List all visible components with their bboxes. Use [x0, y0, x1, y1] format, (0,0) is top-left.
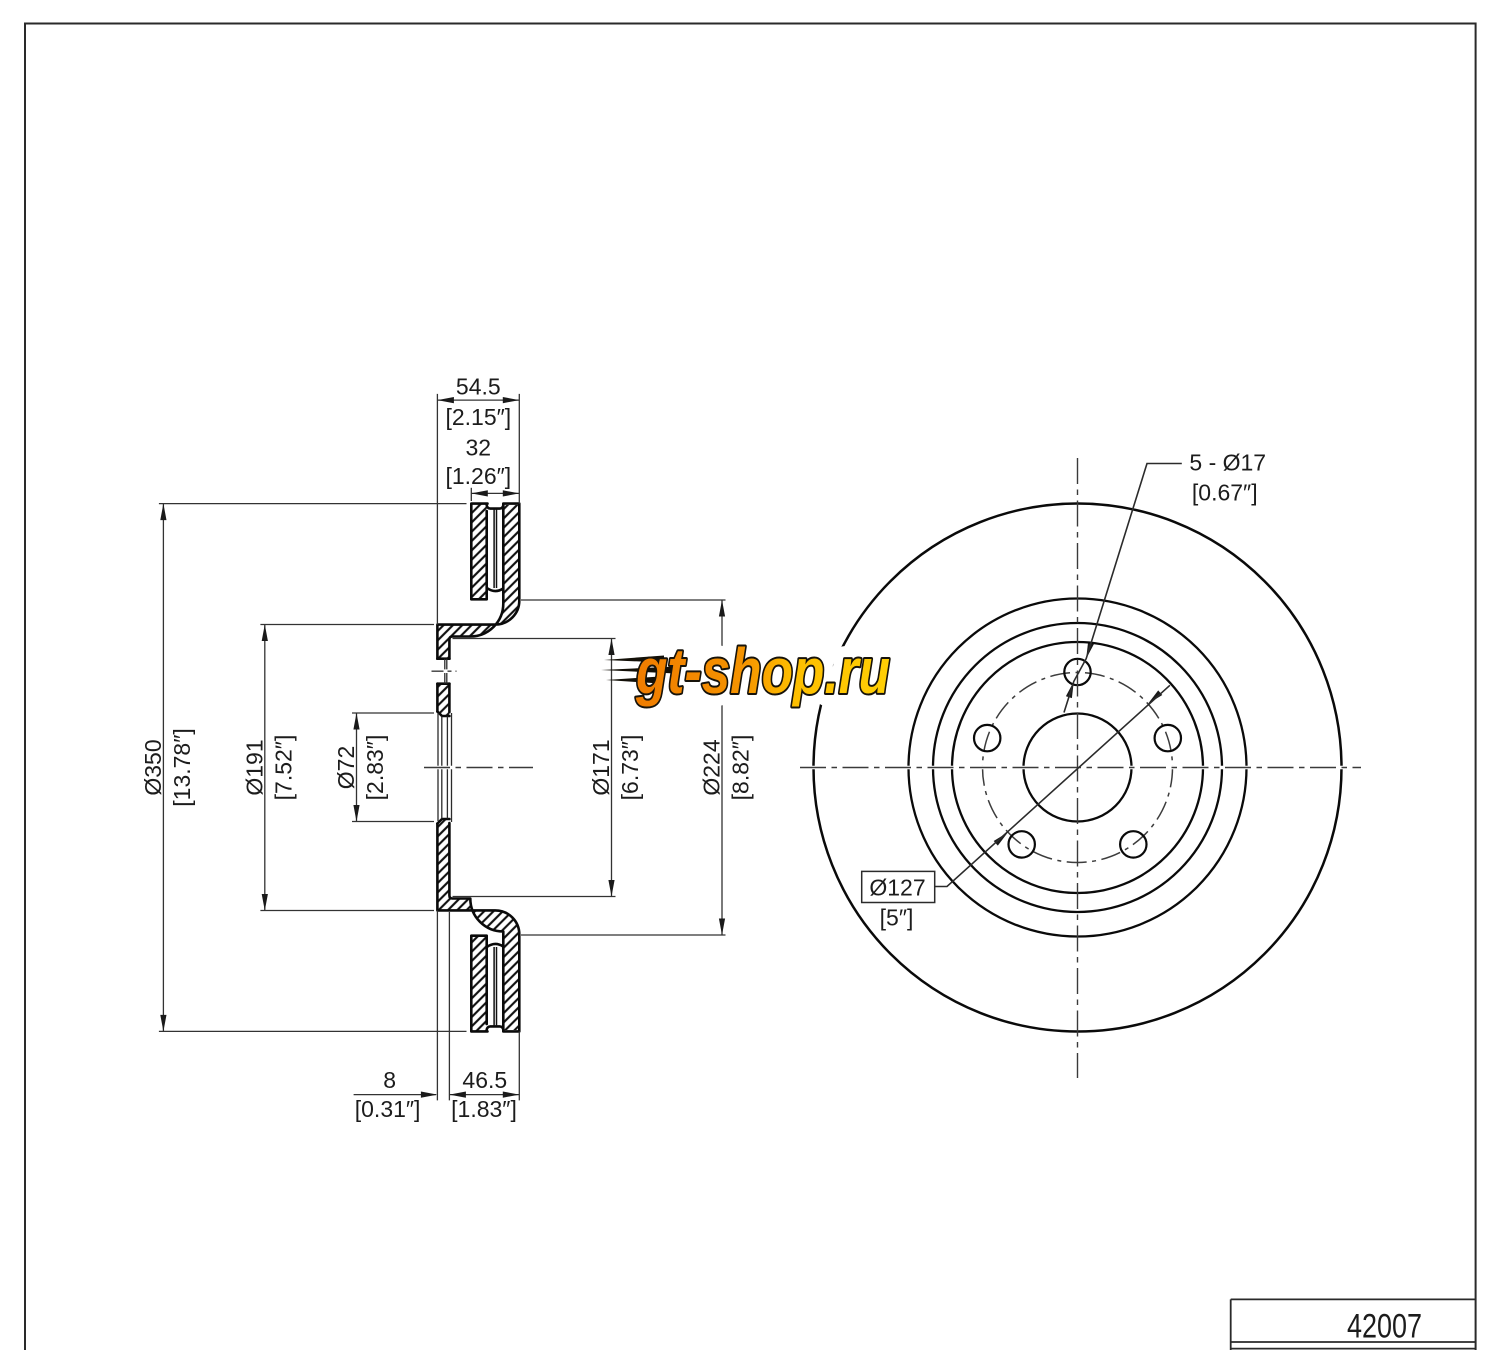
svg-text:[1.26″]: [1.26″] — [445, 463, 511, 489]
svg-text:32: 32 — [466, 434, 492, 460]
svg-text:[5″]: [5″] — [880, 905, 914, 931]
svg-text:[0.67″]: [0.67″] — [1192, 480, 1258, 506]
svg-text:5 - Ø17: 5 - Ø17 — [1189, 449, 1266, 475]
svg-text:Ø72: Ø72 — [333, 746, 359, 789]
svg-text:[2.83″]: [2.83″] — [362, 735, 388, 801]
svg-text:gt-shop.ru: gt-shop.ru — [635, 635, 890, 707]
svg-text:[6.73″]: [6.73″] — [617, 735, 643, 801]
svg-text:[13.78″]: [13.78″] — [169, 728, 195, 806]
svg-text:[1.83″]: [1.83″] — [451, 1096, 517, 1122]
svg-text:54.5: 54.5 — [456, 374, 501, 400]
svg-text:[8.82″]: [8.82″] — [728, 735, 754, 801]
svg-text:Ø350: Ø350 — [140, 739, 166, 795]
svg-text:Ø127: Ø127 — [869, 874, 925, 900]
svg-text:[2.15″]: [2.15″] — [445, 404, 511, 430]
svg-text:8: 8 — [383, 1067, 396, 1093]
svg-text:[7.52″]: [7.52″] — [270, 735, 296, 801]
svg-text:Ø171: Ø171 — [588, 739, 614, 795]
svg-text:Ø224: Ø224 — [699, 739, 725, 795]
svg-text:Ø191: Ø191 — [241, 739, 267, 795]
svg-text:42007: 42007 — [1347, 1308, 1422, 1346]
svg-text:[0.31″]: [0.31″] — [355, 1096, 421, 1122]
svg-text:46.5: 46.5 — [462, 1067, 507, 1093]
